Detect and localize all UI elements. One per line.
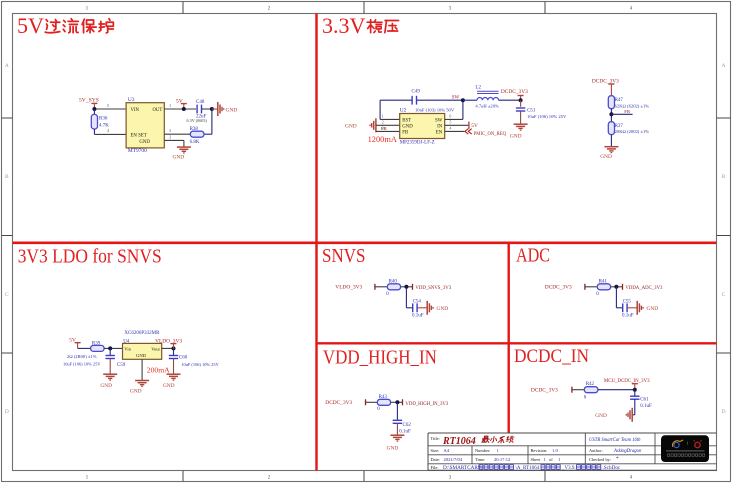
svg-text:A4: A4 — [444, 448, 450, 453]
svg-text:5: 5 — [449, 119, 451, 124]
svg-text:OUT: OUT — [152, 108, 162, 113]
svg-text:R42: R42 — [586, 382, 595, 387]
wire junction down to R36 — [93, 109, 95, 114]
svg-text:GND: GND — [402, 124, 413, 129]
title block frame — [428, 432, 717, 434]
node junction FB — [609, 112, 613, 116]
svg-text:Revision:: Revision: — [531, 448, 548, 453]
svg-text:C61: C61 — [640, 397, 649, 402]
svg-text:5: 5 — [107, 103, 109, 108]
svg-text:SW: SW — [452, 95, 460, 100]
wire DCDC to R43 — [366, 401, 378, 403]
capacitor C49 — [411, 96, 413, 105]
svg-text:U4: U4 — [123, 339, 130, 344]
svg-text:C: C — [5, 292, 9, 298]
wire C59 to gnd — [109, 359, 111, 375]
svg-text:Checked by:: Checked by: — [589, 457, 611, 462]
ground GND below C59 — [103, 373, 117, 375]
svg-text:Size:: Size: — [431, 448, 440, 453]
wire node to C60 — [173, 348, 175, 355]
svg-text:_V3.9.: _V3.9. — [561, 466, 576, 471]
logo emblem center — [687, 442, 689, 445]
svg-text:C49: C49 — [412, 90, 421, 95]
svg-text:C59: C59 — [117, 363, 126, 368]
svg-text:GND: GND — [173, 154, 185, 160]
svg-text:GND: GND — [139, 140, 150, 145]
svg-text:R39: R39 — [92, 341, 101, 346]
wire VLDO to R40 — [375, 286, 387, 288]
svg-text:GND: GND — [345, 124, 357, 130]
wire C54 to gnd — [418, 307, 428, 309]
op-amp U3 MT9700 body — [126, 103, 164, 148]
node junction SW — [461, 98, 465, 102]
svg-text:3: 3 — [382, 125, 384, 130]
wire R39 to U4 Vin — [104, 347, 122, 349]
svg-text:Date:: Date: — [431, 457, 441, 462]
capacitor C60 — [169, 355, 178, 357]
svg-text:GND: GND — [600, 154, 612, 160]
svg-text:3.3V: 3.3V — [322, 13, 366, 38]
svg-text:GND: GND — [130, 389, 142, 395]
wire U2 SW to node — [445, 118, 463, 120]
svg-text:U2: U2 — [400, 108, 407, 114]
port PMIC_ON_REQ at U2 EN — [445, 130, 465, 132]
file path cjk boxes — [479, 465, 483, 469]
svg-text:\A_RT1064: \A_RT1064 — [516, 466, 540, 471]
logo emblem right — [695, 442, 700, 447]
resistor R43 — [377, 399, 390, 405]
wire C49 to SW node — [417, 99, 463, 101]
wire C51 to gnd — [520, 111, 522, 124]
svg-text:20:17:12: 20:17:12 — [494, 457, 511, 462]
svg-text:EN: EN — [436, 130, 443, 135]
resistor R42 — [584, 387, 598, 393]
red divider horizontal y243 — [13, 242, 717, 245]
resistor R38 — [190, 131, 204, 137]
wire R47 to R37 — [610, 109, 612, 122]
wire SW node to L2 — [463, 99, 477, 101]
svg-text:R41: R41 — [599, 280, 608, 285]
svg-text:C55: C55 — [623, 299, 632, 304]
svg-text:VDD_SNVS_3V3: VDD_SNVS_3V3 — [415, 286, 451, 291]
resistor R39 — [91, 345, 105, 351]
svg-text:GND: GND — [595, 413, 607, 419]
node junction dcdcin — [633, 388, 637, 392]
ground GND below C60 — [167, 373, 181, 375]
capacitor C61 — [634, 390, 636, 396]
svg-text:10uF (106) 10% 25V: 10uF (106) 10% 25V — [63, 361, 101, 366]
svg-text:0.1uF: 0.1uF — [399, 430, 411, 435]
wire DCDC to R41 — [585, 286, 597, 288]
svg-text:SW: SW — [435, 118, 443, 123]
resistor R36 — [91, 114, 97, 129]
svg-text:B: B — [722, 174, 726, 180]
wire R42 to node — [598, 389, 635, 391]
svg-text:GND: GND — [510, 134, 522, 140]
port VDDA_ADC_3V3 — [622, 284, 624, 290]
node junction C59 — [108, 346, 112, 350]
node junction ADC — [614, 285, 618, 289]
svg-text:MCU_DCDC_IN_3V3: MCU_DCDC_IN_3V3 — [604, 379, 650, 384]
svg-text:GND: GND — [226, 107, 238, 113]
ground GND vddh — [390, 434, 404, 436]
wire U4 GND pin down — [141, 359, 143, 380]
svg-text:RT1064: RT1064 — [442, 436, 476, 447]
node junction at R36 top — [92, 107, 96, 111]
wire node to C51 — [520, 100, 522, 107]
op-amp U4 XC6206 body — [123, 343, 162, 359]
svg-text:10uF (106) 10% 25V: 10uF (106) 10% 25V — [181, 362, 219, 367]
ground GND below U3 — [177, 146, 191, 148]
svg-text:2: 2 — [382, 119, 384, 124]
resistor R37 — [608, 122, 614, 135]
wire junction down to C55 — [615, 287, 617, 308]
svg-text:Author:: Author: — [589, 448, 603, 453]
svg-text:U3: U3 — [128, 97, 135, 103]
svg-text:VDD_HIGH_IN_3V3: VDD_HIGH_IN_3V3 — [405, 402, 449, 407]
capacitor C59 — [106, 355, 115, 357]
logo divider line — [666, 450, 705, 452]
ground GND below R37 — [604, 146, 618, 148]
wire junction to C59 — [109, 348, 111, 355]
wire FB stub — [611, 113, 632, 115]
wire junction down to C62 — [396, 402, 398, 419]
svg-text:4: 4 — [449, 125, 451, 130]
wire U2 FB stub — [376, 130, 400, 132]
resistor R47 — [608, 96, 614, 109]
svg-text:2021/7/04: 2021/7/04 — [444, 457, 463, 462]
wire 5V to R39 — [78, 347, 91, 349]
svg-text:ADC: ADC — [516, 246, 550, 267]
zone ticks — [182, 2, 184, 14]
svg-text:IN: IN — [437, 124, 443, 129]
wire DCDC to R42 — [572, 389, 584, 391]
svg-text:D:\SMARTCAR9\: D:\SMARTCAR9\ — [443, 465, 482, 471]
svg-text:5V: 5V — [17, 13, 44, 38]
wire C62 to gnd — [396, 423, 398, 435]
svg-text:DCDC_IN: DCDC_IN — [514, 346, 589, 367]
svg-text:3V3 LDO for SNVS: 3V3 LDO for SNVS — [18, 246, 162, 268]
wire 5V_SYS to U3 VIN — [94, 108, 126, 110]
svg-text:DCDC_3V3: DCDC_3V3 — [592, 79, 619, 85]
wire C55 to gnd — [628, 307, 638, 309]
svg-text:GND: GND — [647, 306, 659, 312]
svg-text:GND: GND — [163, 383, 175, 389]
node junction after C48 — [210, 107, 214, 111]
node junction DCDC_3V3 — [519, 98, 523, 102]
wire U4 Vout to node — [162, 347, 174, 349]
svg-text:0.1uF: 0.1uF — [622, 313, 634, 318]
svg-text:6.8K: 6.8K — [190, 140, 200, 145]
capacitor C51 — [516, 107, 525, 109]
svg-text:VDDA_ADC_3V3: VDDA_ADC_3V3 — [625, 286, 663, 291]
svg-text:62KΩ (6202) ±1%: 62KΩ (6202) ±1% — [615, 104, 650, 109]
svg-text:0.1uF: 0.1uF — [412, 313, 424, 318]
svg-text:1.0: 1.0 — [552, 448, 558, 453]
svg-text:BST: BST — [402, 118, 411, 123]
svg-text:R38: R38 — [190, 127, 199, 132]
svg-text:C51: C51 — [527, 108, 536, 113]
svg-text:Vin: Vin — [124, 346, 131, 351]
svg-text:6.3V (0603): 6.3V (0603) — [187, 118, 208, 123]
svg-text:*: * — [616, 456, 619, 462]
svg-text:C60: C60 — [179, 356, 188, 361]
svg-text:FB: FB — [402, 130, 408, 135]
port VDD_HIGH_IN_3V3 — [402, 399, 404, 405]
svg-text:C: C — [722, 292, 726, 298]
svg-text:Time:: Time: — [475, 457, 485, 462]
ground GND below U4 — [135, 380, 149, 382]
svg-text:200mA: 200mA — [147, 366, 170, 375]
op-amp U2 MP2359 body — [400, 114, 445, 139]
logo emblem left — [674, 442, 679, 447]
wire R43 to port — [391, 401, 403, 403]
svg-text:FB: FB — [624, 109, 630, 114]
svg-text:Vout: Vout — [151, 346, 160, 351]
svg-text:10nF (103) 10% 50V: 10nF (103) 10% 50V — [415, 108, 455, 113]
wire U2 BST loop — [380, 118, 400, 120]
svg-text:3: 3 — [169, 128, 171, 133]
svg-text:C54: C54 — [413, 299, 422, 304]
svg-text:GND: GND — [437, 306, 449, 312]
svg-text:GND: GND — [100, 383, 112, 389]
svg-text:6: 6 — [449, 113, 451, 118]
red divider vertical x509 — [508, 243, 510, 433]
svg-text:GND: GND — [387, 445, 399, 451]
svg-text:D: D — [5, 409, 9, 415]
wire U3 OUT to 5V node — [164, 108, 196, 110]
ground GND below C51 — [514, 123, 528, 125]
logo tiny text — [668, 454, 670, 456]
power port 5V at U2 IN — [445, 124, 469, 126]
wire C60 to gnd — [173, 359, 175, 375]
svg-text:USTB SmartCar Team 16th: USTB SmartCar Team 16th — [589, 438, 641, 443]
red divider vertical x316 — [315, 14, 317, 471]
capacitor C48 — [196, 105, 198, 114]
svg-text:Title:: Title: — [431, 436, 440, 441]
svg-text:PMIC_ON_REQ: PMIC_ON_REQ — [474, 132, 507, 137]
node junction SNVS — [404, 285, 408, 289]
svg-text:C48: C48 — [196, 100, 205, 105]
ground GND adc — [636, 301, 638, 315]
node junction vddh — [395, 400, 399, 404]
ground GND dcdcin — [631, 408, 633, 422]
capacitor C62 — [393, 419, 402, 421]
svg-text:XC6206P332MR: XC6206P332MR — [124, 331, 160, 336]
svg-text:Number:: Number: — [475, 448, 491, 453]
svg-text:1200mA: 1200mA — [368, 135, 397, 144]
wire C61 to gnd — [634, 399, 636, 415]
svg-text:GND: GND — [136, 353, 147, 358]
svg-text:DCDC_3V3: DCDC_3V3 — [545, 284, 572, 290]
logo black box — [661, 435, 709, 462]
resistor R40 — [387, 284, 400, 290]
svg-text:VLDO_3V3: VLDO_3V3 — [155, 339, 182, 345]
wire C48 to gnd node — [202, 108, 212, 110]
svg-text:4.7uH ±20%: 4.7uH ±20% — [475, 103, 499, 108]
wire node down to R38 — [211, 109, 213, 134]
svg-text:0.1uF: 0.1uF — [640, 404, 652, 409]
wire R37 to gnd — [610, 135, 612, 147]
svg-text:L2: L2 — [475, 86, 481, 91]
red divider horizontal y343 — [317, 342, 717, 344]
svg-text:R37: R37 — [615, 124, 624, 129]
wire R40 to port — [401, 286, 413, 288]
node junction VLDO — [172, 346, 176, 350]
ground GND snvs — [426, 301, 428, 315]
svg-text:1: 1 — [169, 103, 171, 108]
svg-text:Sheet: Sheet — [531, 457, 542, 462]
svg-text:A: A — [722, 63, 726, 69]
capacitor C54 — [412, 303, 414, 312]
wire R41 to port — [611, 286, 623, 288]
svg-text:DCDC_3V3: DCDC_3V3 — [325, 400, 352, 406]
svg-text:MT9700: MT9700 — [128, 148, 147, 154]
svg-text:DCDC_3V3: DCDC_3V3 — [501, 89, 528, 95]
inductor L2 — [477, 97, 499, 100]
svg-text:VDD_HIGH_IN: VDD_HIGH_IN — [323, 348, 437, 369]
wire R36 to U3 EN — [93, 129, 95, 134]
wire U3 GND pin2 — [164, 139, 184, 141]
svg-text:EN SET: EN SET — [131, 134, 147, 139]
svg-text:C62: C62 — [403, 423, 412, 428]
svg-text:VIN: VIN — [131, 108, 140, 113]
svg-text:MP2359DJ-LF-Z: MP2359DJ-LF-Z — [400, 141, 435, 146]
svg-text:SNVS: SNVS — [322, 245, 366, 267]
svg-text:.SchDoc: .SchDoc — [603, 465, 621, 471]
svg-text:B: B — [5, 174, 9, 180]
wire R38 to U3 pin3 — [164, 133, 190, 135]
svg-text:AskingDragon: AskingDragon — [613, 449, 642, 454]
wire L2 to DCDC_3V3 node — [499, 99, 521, 101]
svg-text:10uF (106) 10% 25V: 10uF (106) 10% 25V — [527, 114, 567, 119]
svg-text:R43: R43 — [379, 395, 388, 400]
svg-text:VLDO_3V3: VLDO_3V3 — [335, 284, 362, 290]
svg-text:R36: R36 — [99, 117, 108, 122]
svg-text:2: 2 — [169, 134, 171, 139]
svg-text:5V: 5V — [471, 123, 478, 129]
capacitor C55 — [622, 303, 624, 312]
node junction 5V — [182, 107, 186, 111]
svg-text:D: D — [722, 409, 726, 415]
svg-text:R47: R47 — [615, 98, 624, 103]
ground GND right of C48 — [212, 108, 218, 110]
svg-text:A: A — [5, 63, 9, 69]
svg-text:20KΩ (2002) ±1%: 20KΩ (2002) ±1% — [615, 129, 650, 134]
svg-text:of: of — [549, 457, 553, 462]
svg-text:1: 1 — [382, 113, 384, 118]
svg-text:2Ω (2R00) ±1%: 2Ω (2R00) ±1% — [67, 354, 97, 359]
svg-text:DCDC_3V3: DCDC_3V3 — [531, 388, 558, 394]
resistor R41 — [597, 284, 610, 290]
wire junction down to C54 — [405, 287, 407, 308]
svg-text:R40: R40 — [389, 280, 398, 285]
port VDD_SNVS_3V3 — [412, 284, 414, 290]
svg-text:File:: File: — [431, 465, 439, 470]
